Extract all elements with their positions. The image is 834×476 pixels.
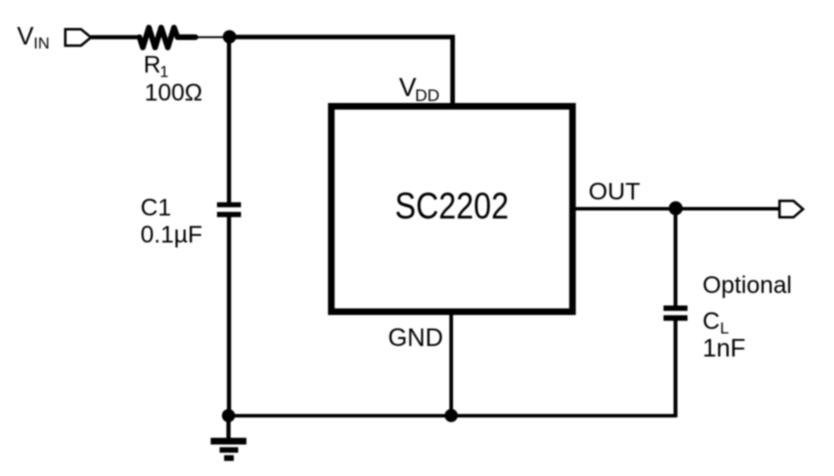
wire node A to C1 top [227, 37, 231, 203]
resistor R1 [140, 28, 196, 48]
net label VIN [17, 22, 50, 52]
wire C1 bottom to ground node [227, 216, 231, 416]
svg-text:1nF: 1nF [703, 335, 746, 363]
svg-text:C: C [703, 308, 720, 335]
svg-text:GND: GND [388, 325, 443, 352]
wire OUT pin [574, 207, 779, 211]
pin wire GND [449, 313, 453, 416]
wire node A to VDD pin [230, 37, 453, 104]
ground node B [222, 409, 235, 422]
IC U1 SC2202 [331, 106, 572, 311]
label CL [703, 308, 730, 338]
capacitor C1 [217, 205, 241, 215]
svg-text:OUT: OUT [589, 179, 641, 206]
svg-text:0.1µF: 0.1µF [141, 222, 203, 249]
junction node A [223, 30, 236, 43]
svg-text:DD: DD [415, 86, 440, 105]
svg-text:R: R [144, 52, 161, 79]
wire CL bottom to rail [674, 320, 678, 417]
capacitor CL [664, 308, 688, 318]
svg-text:100Ω: 100Ω [145, 80, 203, 107]
label R1 [144, 52, 169, 81]
ground symbol [211, 415, 247, 461]
pin label VDD [399, 72, 440, 105]
svg-text:SC2202: SC2202 [395, 186, 509, 227]
svg-text:IN: IN [34, 35, 50, 52]
wire node D to CL top [674, 208, 678, 306]
junction node D (OUT) [669, 201, 683, 215]
bottom rail wire [229, 414, 676, 418]
svg-text:V: V [17, 22, 34, 50]
svg-text:Optional: Optional [703, 272, 792, 299]
input terminal [65, 29, 91, 45]
svg-text:C1: C1 [141, 195, 172, 222]
junction node C (GND to rail) [445, 409, 458, 422]
wire terminal to R1 [91, 35, 140, 39]
output terminal [780, 201, 804, 217]
svg-text:1: 1 [160, 64, 169, 81]
thin wire R1 to node A [195, 36, 227, 38]
